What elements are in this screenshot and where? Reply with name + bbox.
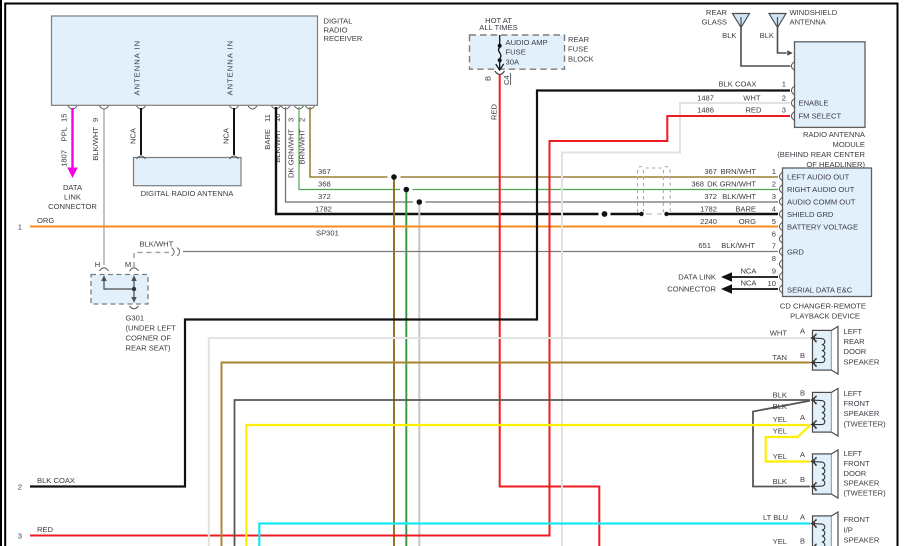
svg-text:2240: 2240 <box>700 217 717 226</box>
wire WHT 1487 <box>562 103 790 546</box>
svg-text:RECEIVER: RECEIVER <box>324 34 363 43</box>
svg-text:PPL: PPL <box>60 127 69 141</box>
svg-text:DK GRN/WHT: DK GRN/WHT <box>707 180 756 189</box>
svg-text:(BEHIND REAR CENTER: (BEHIND REAR CENTER <box>777 150 865 159</box>
radio antenna module pin arcs <box>791 61 795 120</box>
wire YEL jumper to left front door speaker A <box>766 426 810 462</box>
svg-text:1: 1 <box>772 167 776 176</box>
svg-text:FUSE: FUSE <box>568 44 588 53</box>
svg-text:CONNECTOR: CONNECTOR <box>48 202 97 211</box>
svg-text:1487: 1487 <box>697 93 714 102</box>
svg-text:YEL: YEL <box>773 415 787 424</box>
svg-text:367: 367 <box>318 167 331 176</box>
svg-text:NCA: NCA <box>129 127 138 144</box>
svg-text:B: B <box>800 475 805 484</box>
svg-text:2: 2 <box>772 180 776 189</box>
svg-text:6: 6 <box>772 230 776 239</box>
svg-text:C4: C4 <box>502 75 511 85</box>
svg-text:FRONT: FRONT <box>844 459 871 468</box>
svg-text:BLK: BLK <box>773 402 787 411</box>
svg-text:3: 3 <box>287 118 296 122</box>
svg-text:LINK: LINK <box>64 193 81 202</box>
svg-text:3: 3 <box>18 532 22 541</box>
wire RED 1486 FM select <box>30 116 790 536</box>
svg-text:BLK/WHT: BLK/WHT <box>721 241 755 250</box>
svg-text:BLK: BLK <box>722 31 736 40</box>
svg-text:FRONT: FRONT <box>844 399 871 408</box>
svg-text:BLK/WHT: BLK/WHT <box>91 127 100 161</box>
digital radio antenna box <box>134 158 242 198</box>
svg-text:BATTERY VOLTAGE: BATTERY VOLTAGE <box>787 222 858 231</box>
svg-text:RED: RED <box>745 105 762 114</box>
wire LT BLU front I/P speaker A <box>259 524 810 546</box>
svg-text:ALL TIMES: ALL TIMES <box>479 23 517 32</box>
svg-text:368: 368 <box>318 180 331 189</box>
wire BLK/WHT pin 9 to H <box>103 108 105 265</box>
cd changer-remote playback device box <box>780 168 872 321</box>
svg-text:BRN/WHT: BRN/WHT <box>721 167 757 176</box>
svg-text:9: 9 <box>91 118 100 122</box>
svg-text:RED: RED <box>37 525 54 534</box>
antenna box pin arcs <box>137 156 239 159</box>
wire TAN left rear speaker B <box>222 363 811 546</box>
svg-text:BLK: BLK <box>773 477 787 486</box>
svg-text:7: 7 <box>772 242 776 251</box>
wire NCA pin9 <box>721 272 778 282</box>
svg-text:SERIAL DATA E&C: SERIAL DATA E&C <box>787 286 853 295</box>
wire BLK/WHT 372 <box>286 107 779 202</box>
svg-text:9: 9 <box>772 267 776 276</box>
wire BLK left front speaker B <box>235 400 811 546</box>
svg-text:M: M <box>125 260 131 269</box>
svg-text:1782: 1782 <box>700 205 717 214</box>
svg-text:2: 2 <box>782 93 786 102</box>
svg-text:SHIELD GRD: SHIELD GRD <box>787 210 834 219</box>
svg-text:WHT: WHT <box>743 93 761 102</box>
svg-text:CONNECTOR: CONNECTOR <box>667 284 716 293</box>
svg-text:GRD: GRD <box>787 248 804 257</box>
svg-text:1: 1 <box>782 79 786 88</box>
svg-text:REAR: REAR <box>568 35 590 44</box>
windshield antenna A2 <box>760 8 838 56</box>
svg-text:BARE: BARE <box>735 205 756 214</box>
radio antenna module box <box>777 42 866 169</box>
svg-text:REAR SEAT): REAR SEAT) <box>126 344 171 353</box>
junction dots 1782 <box>602 211 608 217</box>
rear glass antenna A1 <box>702 8 791 66</box>
speaker LS2 left front tweeter <box>773 388 887 436</box>
speaker LS1 left rear door <box>770 326 880 374</box>
svg-text:651: 651 <box>698 241 711 250</box>
svg-text:DOOR: DOOR <box>844 469 867 478</box>
wire BLK jumper to left front door speaker B <box>753 401 810 487</box>
svg-text:I/P: I/P <box>844 525 853 534</box>
svg-text:BLOCK: BLOCK <box>568 55 594 64</box>
svg-text:YEL: YEL <box>773 537 787 546</box>
fuse F1 30A <box>495 35 505 75</box>
wire PPL 1807 to data link connector <box>48 108 97 211</box>
svg-text:15: 15 <box>60 114 69 122</box>
svg-text:WINDSHIELD: WINDSHIELD <box>790 8 838 17</box>
svg-text:1: 1 <box>18 223 22 232</box>
svg-text:REAR: REAR <box>844 337 866 346</box>
svg-text:RADIO ANTENNA: RADIO ANTENNA <box>803 130 866 139</box>
svg-text:SPEAKER: SPEAKER <box>844 479 880 488</box>
svg-text:BLK COAX: BLK COAX <box>719 79 757 88</box>
svg-text:367: 367 <box>704 167 717 176</box>
svg-text:MODULE: MODULE <box>833 140 866 149</box>
wire RED from fuse <box>500 75 600 546</box>
svg-text:(TWEETER): (TWEETER) <box>844 489 887 498</box>
wire BLK COAX net <box>30 91 790 487</box>
wire BARE 1782 <box>276 107 778 214</box>
wire BLK/WHT 651 <box>134 240 778 268</box>
svg-text:FRONT: FRONT <box>844 515 871 524</box>
wire NCA antenna 2 <box>233 108 235 155</box>
shield symbol dashed <box>638 167 671 213</box>
svg-text:SPEAKER: SPEAKER <box>844 536 880 545</box>
speaker LS4 front I/P <box>763 512 880 546</box>
svg-text:RIGHT AUDIO OUT: RIGHT AUDIO OUT <box>787 185 855 194</box>
svg-text:RED: RED <box>490 103 499 120</box>
svg-text:LEFT: LEFT <box>844 449 863 458</box>
svg-text:CORNER OF: CORNER OF <box>126 334 172 343</box>
svg-text:1782: 1782 <box>315 205 332 214</box>
svg-text:H: H <box>95 260 100 269</box>
svg-text:ANTENNA IN: ANTENNA IN <box>226 40 235 96</box>
svg-text:5: 5 <box>772 217 776 226</box>
svg-text:FM SELECT: FM SELECT <box>799 112 842 121</box>
svg-text:AUDIO AMP: AUDIO AMP <box>506 38 548 47</box>
svg-text:4: 4 <box>772 205 776 214</box>
svg-text:AUDIO COMM OUT: AUDIO COMM OUT <box>787 198 856 207</box>
svg-text:NCA: NCA <box>740 279 757 288</box>
svg-text:B: B <box>484 76 493 81</box>
svg-text:PLAYBACK DEVICE: PLAYBACK DEVICE <box>790 312 860 321</box>
svg-text:3: 3 <box>772 192 776 201</box>
svg-text:BLK/WHT: BLK/WHT <box>722 192 756 201</box>
svg-text:11: 11 <box>263 114 272 122</box>
svg-text:2: 2 <box>18 483 22 492</box>
wire DK GRN/WHT 368 <box>299 107 778 190</box>
page edge strip <box>0 0 2 546</box>
svg-text:FUSE: FUSE <box>506 48 526 57</box>
svg-text:TAN: TAN <box>772 353 787 362</box>
svg-text:1807: 1807 <box>60 150 69 167</box>
wire YEL left front speaker A <box>246 425 810 546</box>
wire ORG SP301 bus <box>30 226 778 228</box>
svg-text:SPEAKER: SPEAKER <box>844 357 880 366</box>
svg-text:ANTENNA IN: ANTENNA IN <box>133 40 142 96</box>
connector H M <box>95 260 139 271</box>
pin labels receiver <box>60 40 307 178</box>
svg-text:SPEAKER: SPEAKER <box>844 409 880 418</box>
svg-text:BLK/WHT: BLK/WHT <box>273 129 282 163</box>
svg-text:DIGITAL RADIO ANTENNA: DIGITAL RADIO ANTENNA <box>141 189 235 198</box>
svg-text:DK GRN/WHT: DK GRN/WHT <box>287 129 296 178</box>
svg-text:LT BLU: LT BLU <box>763 513 788 522</box>
svg-text:DATA: DATA <box>63 183 83 192</box>
digital radio receiver U1 <box>52 16 363 105</box>
svg-text:NCA: NCA <box>740 267 757 276</box>
svg-text:LEFT: LEFT <box>844 389 863 398</box>
svg-text:LEFT: LEFT <box>844 327 863 336</box>
svg-text:RADIO: RADIO <box>324 25 348 34</box>
svg-text:372: 372 <box>704 192 717 201</box>
svg-text:BLK: BLK <box>760 31 774 40</box>
svg-text:ORG: ORG <box>739 217 756 226</box>
svg-text:372: 372 <box>318 192 331 201</box>
svg-text:BARE: BARE <box>263 129 272 150</box>
wire NCA pin10 <box>721 284 778 294</box>
svg-text:REAR: REAR <box>706 8 728 17</box>
rear fuse block dashed box <box>470 35 594 69</box>
svg-text:(UNDER LEFT: (UNDER LEFT <box>126 324 177 333</box>
svg-text:DATA LINK: DATA LINK <box>678 272 716 281</box>
svg-text:ENABLE: ENABLE <box>799 98 829 107</box>
svg-text:B: B <box>800 536 805 545</box>
svg-text:10: 10 <box>273 114 282 122</box>
speaker LS3 left front door tweeter <box>773 449 887 498</box>
svg-text:8: 8 <box>772 254 776 263</box>
svg-text:CD CHANGER-REMOTE: CD CHANGER-REMOTE <box>780 302 866 311</box>
svg-text:DIGITAL: DIGITAL <box>324 17 353 26</box>
svg-text:3: 3 <box>782 105 786 114</box>
cd changer pin arcs <box>779 172 783 294</box>
svg-text:30A: 30A <box>506 57 520 66</box>
svg-text:G301: G301 <box>126 314 145 323</box>
svg-text:ORG: ORG <box>37 216 54 225</box>
ground G301 <box>91 275 176 353</box>
wire BRN/WHT 367 <box>310 107 778 177</box>
cd changer row labels <box>691 167 776 288</box>
receiver pin arcs <box>68 106 315 109</box>
svg-text:SP301: SP301 <box>316 229 339 238</box>
svg-text:YEL: YEL <box>773 452 787 461</box>
svg-text:WHT: WHT <box>770 329 788 338</box>
wire WHT left rear speaker A <box>209 338 811 546</box>
svg-text:YEL: YEL <box>773 426 787 435</box>
svg-text:10: 10 <box>768 279 776 288</box>
svg-text:LEFT AUDIO OUT: LEFT AUDIO OUT <box>787 173 850 182</box>
svg-text:(TWEETER): (TWEETER) <box>844 419 887 428</box>
svg-text:368: 368 <box>691 180 704 189</box>
svg-text:DOOR: DOOR <box>844 347 867 356</box>
svg-text:1486: 1486 <box>697 105 714 114</box>
svg-text:NCA: NCA <box>222 127 231 144</box>
svg-text:B: B <box>800 389 805 398</box>
svg-text:BLK COAX: BLK COAX <box>37 476 75 485</box>
svg-text:GLASS: GLASS <box>702 17 727 26</box>
wire NCA antenna 1 <box>140 108 142 155</box>
svg-text:B: B <box>800 351 805 360</box>
svg-text:BLK: BLK <box>773 391 787 400</box>
svg-text:BLK/WHT: BLK/WHT <box>140 240 174 249</box>
svg-text:ANTENNA: ANTENNA <box>790 17 827 26</box>
